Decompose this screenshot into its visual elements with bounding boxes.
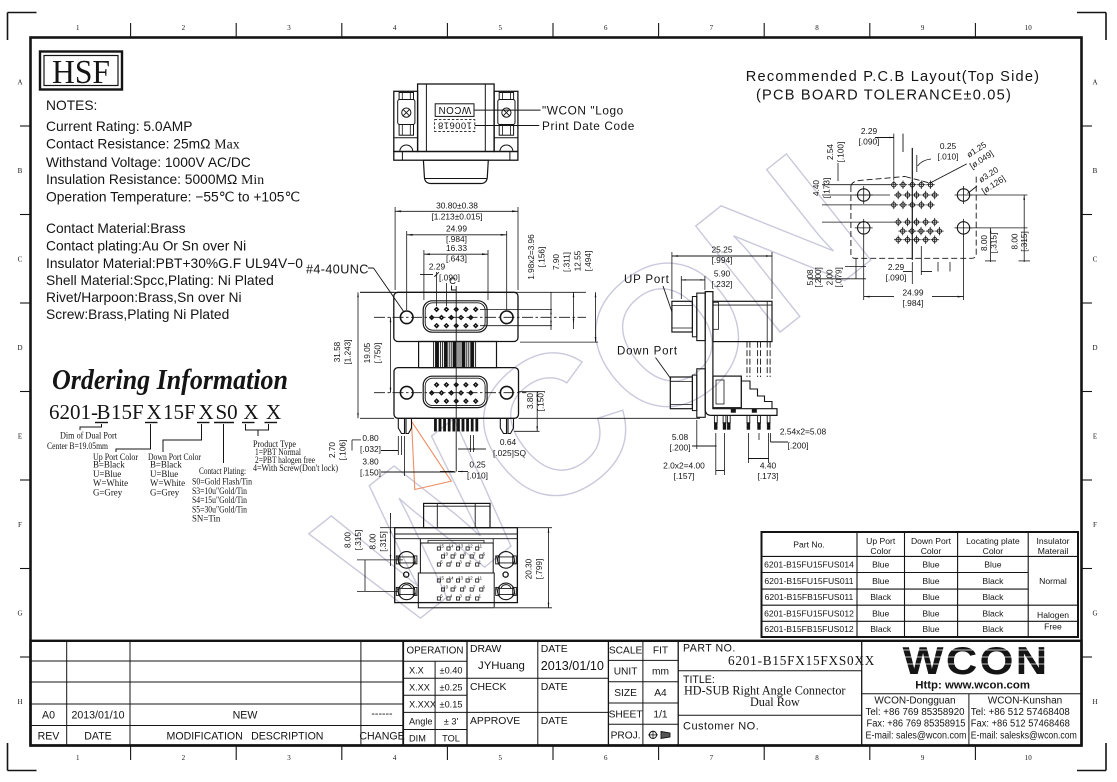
svg-text:[.079]: [.079] (835, 267, 844, 288)
svg-text:2: 2 (182, 754, 186, 762)
svg-text:F: F (1093, 521, 1097, 529)
svg-text:2.70: 2.70 (328, 442, 337, 458)
svg-text:Blue: Blue (922, 576, 939, 586)
front view upper flange (394, 292, 518, 341)
svg-text:1/1: 1/1 (653, 709, 667, 720)
svg-text:G: G (1092, 609, 1097, 617)
pcb dim 2.29 top (859, 126, 894, 180)
svg-text:6201-B15FU15FUS014: 6201-B15FU15FUS014 (764, 560, 854, 570)
svg-text:Locating plate: Locating plate (966, 536, 1020, 546)
svg-text:Up Port: Up Port (866, 536, 896, 546)
svg-text:[.090]: [.090] (886, 273, 907, 283)
pcb phi labels (965, 139, 1007, 196)
svg-text:[.156]: [.156] (538, 247, 547, 268)
svg-text:[.032]: [.032] (360, 444, 381, 454)
front view lower centerline dashed (374, 392, 526, 394)
svg-text:[.173]: [.173] (758, 471, 779, 481)
bottom view top shroud (424, 503, 490, 527)
svg-text:[.232]: [.232] (712, 279, 733, 289)
pcb centerline vertical (911, 148, 913, 260)
svg-text:X: X (199, 400, 214, 424)
svg-text:WCON-Kunshan: WCON-Kunshan (988, 696, 1062, 707)
svg-text:19.05: 19.05 (363, 342, 372, 363)
svg-text:Rivet/Harpoon:Brass,Sn over Ni: Rivet/Harpoon:Brass,Sn over Ni (46, 290, 242, 305)
pcb dim 2.54 rotated (822, 142, 890, 195)
svg-text:[.315]: [.315] (379, 531, 388, 552)
top view d-sub shroud (423, 160, 488, 183)
svg-text:4: 4 (393, 24, 397, 32)
svg-text:X.XXX: X.XXX (409, 700, 436, 710)
svg-text:Blue: Blue (922, 592, 939, 602)
svg-text:Fax: +86 512 57468468: Fax: +86 512 57468468 (971, 719, 1071, 730)
svg-text:DATE: DATE (84, 731, 111, 743)
svg-text:[.750]: [.750] (374, 343, 383, 364)
svg-text:Contact Material:Brass: Contact Material:Brass (46, 221, 186, 236)
svg-text:4.40: 4.40 (812, 180, 821, 196)
svg-text:CHECK: CHECK (470, 682, 506, 693)
bottom view right hardware (498, 552, 515, 569)
svg-text:CHANGE: CHANGE (359, 731, 404, 743)
draw date cells (467, 641, 608, 746)
svg-text:"WCON "Logo: "WCON "Logo (542, 104, 624, 118)
svg-text:± 3': ± 3' (444, 717, 459, 727)
side view upper pins behind (747, 342, 770, 377)
svg-text:2.29: 2.29 (429, 262, 446, 272)
top view WCON logo label leader (474, 109, 541, 111)
svg-text:[.025]SQ: [.025]SQ (493, 448, 527, 458)
svg-text:Free: Free (1044, 622, 1062, 632)
top view date code box (435, 120, 475, 132)
top view bottom band (394, 152, 518, 161)
svg-text:Http: www.wcon.com: Http: www.wcon.com (915, 680, 1030, 692)
notes text block (46, 98, 303, 322)
side view up port barrel (697, 293, 705, 341)
svg-text:24.99: 24.99 (903, 288, 924, 298)
svg-text:2013/01/10: 2013/01/10 (541, 659, 604, 673)
svg-text:[.984]: [.984] (903, 298, 924, 308)
part no title customer cells (678, 641, 875, 746)
svg-text:Contact Resistance: 25mΩ Max: Contact Resistance: 25mΩ Max (46, 137, 240, 152)
side view dim 5.08 (670, 420, 717, 453)
svg-text:Blue: Blue (984, 560, 1001, 570)
svg-text:[.010]: [.010] (938, 152, 959, 162)
svg-text:Black: Black (870, 624, 892, 634)
pcb dashed outline (851, 164, 976, 258)
svg-text:Dual Row: Dual Row (750, 695, 800, 709)
pcb small holes group2 (894, 218, 944, 244)
svg-text:6201-B15FU15FUS012: 6201-B15FU15FUS012 (764, 608, 854, 618)
pcb right dims 8.00 (970, 195, 1030, 262)
svg-text:16.33: 16.33 (446, 243, 467, 253)
dim 0.64 pin square (458, 435, 527, 458)
svg-text:Insulation Resistance: 5000MΩ: Insulation Resistance: 5000MΩ Min (46, 172, 264, 187)
front view long projection lines (360, 291, 586, 293)
svg-text:Tel: +86 769 85358920: Tel: +86 769 85358920 (866, 707, 966, 718)
svg-text:C: C (18, 255, 23, 263)
side view dim 4.40 (748, 433, 778, 481)
svg-text:Customer NO.: Customer NO. (683, 721, 759, 733)
svg-text:[.173]: [.173] (823, 178, 832, 199)
svg-text:H: H (1092, 698, 1097, 706)
watermark orange triangle (412, 421, 452, 489)
svg-text:2.00: 2.00 (826, 269, 835, 285)
pcb dim 4.40 rotated (812, 178, 895, 222)
svg-text:15F: 15F (163, 400, 196, 424)
pcb dim 24.99 bottom (864, 236, 964, 308)
svg-text:[1.213±0.015]: [1.213±0.015] (431, 212, 482, 222)
svg-text:H: H (17, 698, 22, 706)
svg-text:X: X (147, 400, 162, 424)
svg-text:10: 10 (443, 584, 448, 589)
svg-text:Blue: Blue (872, 576, 889, 586)
front view upper mounting holes (400, 311, 413, 324)
dim 0.25 center pin (440, 460, 488, 481)
svg-text:5.08: 5.08 (672, 432, 689, 442)
svg-text:3: 3 (287, 754, 291, 762)
svg-text:WCON: WCON (903, 640, 1050, 683)
dim 16.33 pin field span (424, 243, 488, 300)
svg-text:3: 3 (287, 24, 291, 32)
front view left rotated dims (333, 292, 394, 418)
side view locating plate with foot (705, 292, 777, 416)
revision strip grid (31, 641, 404, 746)
svg-text:Contact plating:Au Or Sn over: Contact plating:Au Or Sn over Ni (46, 239, 246, 254)
side view dim 2.0x2 (663, 433, 724, 481)
svg-text:15F: 15F (111, 400, 144, 424)
svg-text:10: 10 (443, 551, 448, 556)
svg-text:[.994]: [.994] (712, 255, 733, 265)
svg-text:DATE: DATE (541, 644, 568, 655)
front view bottom-left dims (328, 433, 456, 478)
front view upper port pins (429, 307, 479, 329)
svg-text:4: 4 (393, 754, 397, 762)
dim 2.29 pin pitch (420, 262, 460, 307)
front view upper d-opening (423, 301, 487, 332)
svg-text:E: E (18, 432, 22, 440)
svg-text:2.0x2=4.00: 2.0x2=4.00 (663, 461, 705, 471)
svg-text:24.99: 24.99 (446, 224, 467, 234)
svg-text:[.010]: [.010] (467, 471, 488, 481)
svg-text:JYHuang: JYHuang (478, 660, 525, 672)
svg-text:X: X (266, 400, 281, 424)
svg-text:Current Rating: 5.0AMP: Current Rating: 5.0AMP (46, 119, 192, 134)
svg-text:3.80: 3.80 (526, 393, 535, 409)
svg-text:SIZE: SIZE (614, 688, 637, 699)
svg-text:Withstand Voltage: 1000V AC/DC: Withstand Voltage: 1000V AC/DC (46, 155, 251, 170)
svg-text:G: G (17, 609, 22, 617)
svg-text:SN=Tin: SN=Tin (192, 514, 221, 524)
svg-text:Normal: Normal (1039, 576, 1067, 586)
svg-text:OPERATION: OPERATION (407, 646, 464, 657)
svg-text:Blue: Blue (872, 608, 889, 618)
svg-text:Ordering Information: Ordering Information (52, 365, 288, 396)
svg-text:8.00: 8.00 (980, 235, 989, 251)
side view down port barrel (697, 369, 705, 418)
svg-text:Tel: +86 512 57468408: Tel: +86 512 57468408 (971, 707, 1071, 718)
svg-text:[.150]: [.150] (537, 391, 546, 412)
svg-text:G=Grey: G=Grey (150, 487, 180, 497)
svg-text:6201-: 6201- (49, 400, 98, 424)
svg-text:12: 12 (468, 575, 473, 580)
front view lower mounting holes (400, 386, 413, 399)
svg-text:4.40: 4.40 (760, 461, 777, 471)
top view date code label leader (475, 125, 539, 127)
svg-text:B: B (97, 400, 111, 424)
dim 24.99 hole span (407, 224, 507, 311)
svg-text:10: 10 (1025, 754, 1033, 762)
svg-text:100618: 100618 (438, 120, 472, 131)
svg-text:[.200]: [.200] (788, 441, 809, 451)
svg-text:±0.40: ±0.40 (440, 666, 463, 676)
svg-text:REV: REV (38, 731, 61, 743)
dim 30.80 overall width (395, 201, 518, 291)
bottom view upper pin field (420, 543, 493, 573)
svg-text:Fax: +86 769 85358915: Fax: +86 769 85358915 (867, 719, 967, 730)
side view lower stepped body (713, 376, 772, 412)
svg-text:Halogen: Halogen (1037, 610, 1069, 620)
svg-text:mm: mm (652, 667, 669, 678)
bottom view left hardware (398, 552, 415, 569)
svg-text:Dim of Dual Port: Dim of Dual Port (60, 431, 117, 441)
svg-text:NOTES:: NOTES: (46, 98, 97, 113)
svg-text:S0: S0 (216, 400, 238, 424)
svg-text:12.55: 12.55 (574, 250, 583, 271)
svg-text:2.54: 2.54 (826, 144, 835, 160)
svg-text:E-mail: salesks@wcon.com: E-mail: salesks@wcon.com (971, 731, 1077, 742)
svg-text:SCALE: SCALE (609, 646, 643, 657)
svg-text:FIT: FIT (653, 646, 668, 657)
svg-text:Recommended P.C.B Layout(Top S: Recommended P.C.B Layout(Top Side) (746, 69, 1040, 85)
svg-text:A: A (17, 78, 22, 86)
svg-text:Blue: Blue (922, 560, 939, 570)
svg-text:2.29: 2.29 (861, 126, 878, 136)
bottom view main body (395, 528, 518, 603)
svg-text:B: B (18, 167, 23, 175)
svg-text:[1.243]: [1.243] (344, 339, 353, 364)
svg-text:20.30: 20.30 (525, 558, 534, 579)
svg-text:Black: Black (982, 608, 1004, 618)
svg-text:±0.25: ±0.25 (440, 683, 463, 693)
svg-text:DATE: DATE (541, 716, 568, 727)
svg-text:APPROVE: APPROVE (470, 716, 520, 727)
top view left screw hardware (399, 93, 413, 100)
sheet corner marks (8, 12, 37, 14)
svg-text:2: 2 (182, 24, 186, 32)
bottom view lower pin field (418, 573, 494, 608)
svg-text:X: X (244, 400, 259, 424)
svg-text:Contact Plating:: Contact Plating: (199, 466, 246, 476)
svg-text:[.150]: [.150] (360, 468, 381, 478)
top view right screw hardware (499, 93, 513, 100)
ordering annotation texts (47, 431, 338, 524)
svg-text:2.29: 2.29 (888, 262, 905, 272)
svg-text:0.64: 0.64 (500, 437, 517, 447)
svg-text:DRAW: DRAW (470, 644, 502, 655)
svg-text:WCON: WCON (438, 104, 471, 115)
svg-text:3.80: 3.80 (362, 457, 379, 467)
front view right 3.80 dim (514, 391, 545, 432)
side view upper body (713, 301, 772, 341)
svg-text:15: 15 (439, 575, 444, 580)
HSF logo box (40, 52, 122, 90)
svg-text:Blue: Blue (922, 624, 939, 634)
svg-text:[.200]: [.200] (814, 267, 823, 288)
ruler ticks and zone letters left/right (17, 78, 1097, 706)
svg-text:8: 8 (815, 754, 819, 762)
ordering leader lines (80, 424, 269, 463)
svg-text:0.25: 0.25 (940, 141, 957, 151)
svg-text:5.90: 5.90 (714, 269, 731, 279)
svg-text:7.90: 7.90 (552, 254, 561, 270)
svg-text:2.54x2=5.08: 2.54x2=5.08 (780, 427, 827, 437)
svg-text:[.643]: [.643] (446, 253, 467, 263)
wcon logo block (862, 640, 1082, 746)
svg-text:[.100]: [.100] (837, 142, 846, 163)
svg-text:25.25: 25.25 (712, 245, 733, 255)
svg-text:7: 7 (710, 24, 714, 32)
svg-text:6201-B15FX15FXS0XX: 6201-B15FX15FXS0XX (728, 653, 875, 668)
top view WCON logo box (435, 104, 474, 117)
svg-text:Shell Material:Spcc,Plating: N: Shell Material:Spcc,Plating: Ni Plated (46, 273, 274, 288)
side view dim 2.54x2 (759, 427, 827, 451)
svg-text:C: C (1093, 255, 1098, 263)
svg-text:Black: Black (982, 624, 1004, 634)
svg-text:1: 1 (76, 754, 80, 762)
svg-text:6201-B15FB15FUS011: 6201-B15FB15FUS011 (765, 592, 854, 602)
svg-text:[.311]: [.311] (563, 252, 572, 272)
svg-text:D: D (17, 344, 22, 352)
svg-text:Down Port: Down Port (617, 346, 678, 358)
svg-text:14: 14 (449, 575, 454, 580)
svg-text:A4: A4 (654, 688, 667, 699)
front view lower port pins (429, 382, 479, 404)
svg-text:UP Port: UP Port (624, 274, 670, 286)
svg-text:31.58: 31.58 (333, 341, 342, 362)
svg-text:5: 5 (498, 24, 502, 32)
svg-text:8.00: 8.00 (369, 533, 378, 549)
parts table (762, 532, 1079, 637)
svg-text:C: C (449, 276, 456, 287)
svg-text:4=With Screw(Don't lock): 4=With Screw(Don't lock) (253, 463, 338, 473)
side view dim 25.25 (672, 245, 772, 300)
svg-text:F: F (18, 521, 22, 529)
svg-text:Color: Color (870, 546, 891, 556)
svg-text:TOL: TOL (442, 734, 460, 744)
pcb large holes (858, 189, 870, 201)
svg-text:G=Grey: G=Grey (93, 487, 123, 497)
front view mounting legs (398, 418, 513, 433)
svg-text:Operation Temperature: −55℃ to: Operation Temperature: −55℃ to +105℃ (46, 190, 300, 205)
svg-text:Color: Color (921, 546, 942, 556)
watermark WCON outline text (282, 112, 907, 672)
svg-text:1.98x2=3.96: 1.98x2=3.96 (527, 234, 536, 280)
svg-text:11: 11 (478, 543, 483, 548)
svg-text:A0: A0 (42, 710, 55, 722)
svg-text:Insulator Material:PBT+30%G.F: Insulator Material:PBT+30%G.F UL94V−0 (46, 256, 303, 271)
pcb small holes group1 (890, 181, 939, 210)
svg-text:Black: Black (982, 592, 1004, 602)
svg-text:[.315]: [.315] (354, 530, 363, 551)
svg-text:Blue: Blue (922, 608, 939, 618)
svg-text:6201-B15FU15FUS011: 6201-B15FU15FUS011 (764, 576, 853, 586)
top view connector body (394, 84, 518, 152)
svg-text:8.00: 8.00 (1011, 233, 1020, 249)
front view bottom pin row (434, 418, 478, 431)
svg-text:Blue: Blue (872, 560, 889, 570)
svg-text:9: 9 (921, 24, 925, 32)
svg-text:8.00: 8.00 (344, 532, 353, 548)
svg-text:E: E (1093, 432, 1097, 440)
svg-text:Angle: Angle (409, 717, 433, 727)
svg-text:9: 9 (921, 754, 925, 762)
svg-text:[.106]: [.106] (339, 440, 348, 461)
svg-text:2013/01/10: 2013/01/10 (71, 710, 124, 722)
svg-text:Center B=19.05mm: Center B=19.05mm (47, 441, 108, 451)
svg-text:7: 7 (710, 754, 714, 762)
svg-text:15: 15 (439, 543, 444, 548)
pcb dim 2.29 bottom (886, 246, 950, 284)
revision strip texts (38, 708, 405, 743)
svg-text:5: 5 (498, 754, 502, 762)
svg-text:WCON-Dongguan: WCON-Dongguan (874, 696, 955, 707)
svg-text:13: 13 (458, 575, 463, 580)
side view dim 5.90 (681, 269, 732, 300)
svg-text:[.494]: [.494] (584, 251, 593, 272)
svg-text:B: B (1093, 167, 1098, 175)
svg-text:Black: Black (982, 576, 1004, 586)
svg-text:6: 6 (604, 754, 608, 762)
svg-text:DIM: DIM (409, 734, 426, 744)
svg-text:10: 10 (1025, 24, 1033, 32)
svg-text:X.X: X.X (409, 666, 424, 676)
svg-text:HSF: HSF (52, 54, 110, 91)
svg-text:#4-40UNC: #4-40UNC (306, 263, 369, 277)
bottom view dim 20.30 (495, 528, 552, 608)
operation tolerance grid (403, 641, 467, 746)
svg-text:14: 14 (449, 543, 454, 548)
svg-text:Insulator: Insulator (1037, 536, 1070, 546)
svg-text:0.25: 0.25 (469, 460, 486, 470)
bottom view left dims 8.00 (344, 513, 404, 591)
svg-text:SHEET: SHEET (609, 709, 643, 720)
svg-text:[.799]: [.799] (535, 559, 544, 580)
front view vertical centerline (455, 286, 457, 472)
svg-text:PROJ.: PROJ. (611, 731, 641, 742)
svg-text:[.090]: [.090] (859, 137, 880, 147)
svg-text:Print Date Code: Print Date Code (542, 119, 635, 133)
svg-text:11: 11 (478, 575, 483, 580)
projection symbol (608, 641, 678, 746)
front view middle insulator block (419, 342, 497, 368)
svg-text:(PCB BOARD TOLERANCE±0.05): (PCB BOARD TOLERANCE±0.05) (756, 88, 1012, 104)
svg-text:E-mail: sales@wcon.com: E-mail: sales@wcon.com (866, 731, 967, 742)
svg-text:±0.15: ±0.15 (440, 700, 463, 710)
side view through pins (714, 415, 770, 429)
front view right rotated dims (480, 234, 598, 342)
front view upper centerline dashed (374, 316, 586, 318)
svg-text:X.XX: X.XX (409, 683, 430, 693)
svg-text:6201-B15FB15FUS012: 6201-B15FB15FUS012 (764, 624, 854, 634)
svg-text:A: A (1092, 78, 1097, 86)
front view lower d-opening (423, 376, 487, 407)
svg-text:NEW: NEW (233, 710, 258, 722)
svg-text:30.80±0.38: 30.80±0.38 (436, 201, 478, 211)
svg-text:Color: Color (983, 546, 1004, 556)
svg-text:12: 12 (468, 543, 473, 548)
svg-text:Down Port: Down Port (911, 536, 952, 546)
svg-text:[.157]: [.157] (674, 471, 695, 481)
pcb dim 0.25 (917, 141, 959, 172)
